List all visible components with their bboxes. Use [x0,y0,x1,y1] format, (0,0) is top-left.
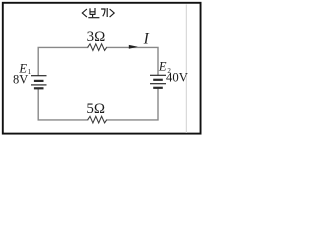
svg-text:5Ω: 5Ω [86,101,105,117]
svg-text:3Ω: 3Ω [87,29,106,45]
svg-text:40V: 40V [166,71,189,85]
svg-text:8V: 8V [13,72,28,86]
svg-text:I: I [143,30,150,47]
